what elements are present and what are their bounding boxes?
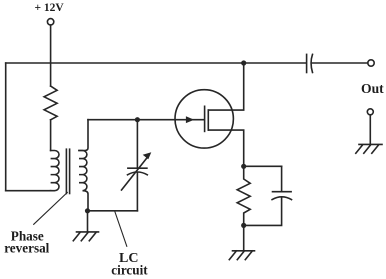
transistor Q1 channel bar <box>207 110 209 130</box>
svg-text:reversal: reversal <box>4 241 49 256</box>
wire to ground 1 <box>87 211 89 231</box>
wire to ground 3 <box>369 115 371 144</box>
terminal +12V <box>47 19 53 25</box>
svg-text:circuit: circuit <box>111 263 148 278</box>
transistor Q1 gate bar <box>204 106 206 131</box>
resistor R2 <box>237 166 250 225</box>
capacitor C3 output coupling plates <box>306 54 308 72</box>
terminal Out <box>368 60 374 66</box>
node source junction <box>241 164 246 169</box>
variable capacitor C1 plates <box>128 167 147 169</box>
arrow variable capacitor <box>122 157 149 191</box>
transistor Q1 circle <box>175 90 233 148</box>
wire resistor to primary <box>50 120 52 151</box>
wire +12V supply down to resistor <box>50 25 52 86</box>
node drain junction <box>241 60 246 65</box>
transistor Q1 source lead <box>208 130 243 166</box>
wire to ground 2 <box>243 225 245 250</box>
wire LC top <box>88 119 137 121</box>
variable capacitor C1 top lead <box>136 120 138 168</box>
transformer T1 secondary winding <box>79 150 88 210</box>
node gate junction <box>135 117 140 122</box>
terminal output ground <box>367 109 373 115</box>
ground 1 <box>73 232 98 241</box>
node LC ground junction <box>85 208 90 213</box>
capacitor C2 plates <box>273 191 292 193</box>
resistor R1 <box>44 86 57 120</box>
transistor Q1 drain lead <box>208 63 243 110</box>
node RC bottom junction <box>241 223 246 228</box>
wire RC top <box>244 165 282 167</box>
arrow gate N-channel <box>186 116 194 123</box>
wire gate lead <box>137 119 204 121</box>
capacitor C2 bottom lead <box>244 198 282 225</box>
svg-text:+ 12V: + 12V <box>35 2 65 14</box>
capacitor C2 top lead <box>281 166 283 191</box>
label Phase reversal leader <box>34 192 68 224</box>
wire left rail <box>5 63 7 191</box>
svg-text:Out: Out <box>361 81 384 96</box>
wire LC bottom <box>88 210 138 212</box>
wire top rail <box>6 62 306 64</box>
wire bottom left <box>6 190 51 192</box>
transformer T1 primary winding <box>51 150 59 190</box>
variable capacitor C1 bottom lead <box>136 173 138 211</box>
ground 2 <box>229 251 254 260</box>
transformer core <box>65 149 67 193</box>
wire output <box>312 62 368 64</box>
label LC circuit leader <box>115 212 127 246</box>
ground 3 <box>356 144 382 153</box>
wire secondary top lead <box>79 120 88 151</box>
